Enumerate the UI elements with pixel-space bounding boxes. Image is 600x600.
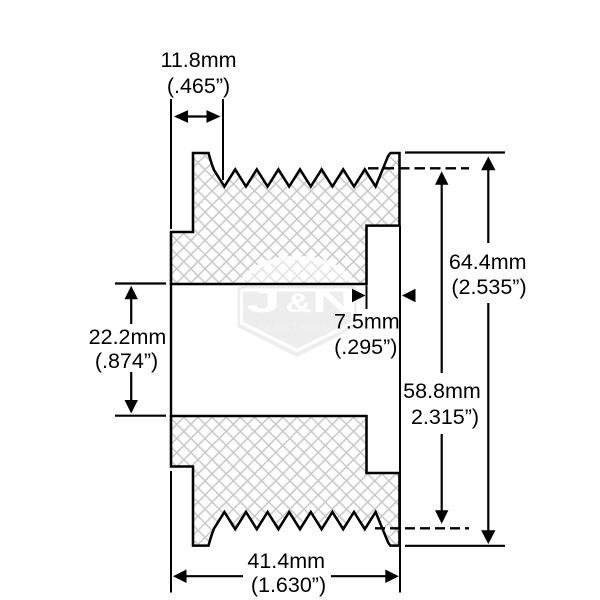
svg-text:64.4mm: 64.4mm [449,250,527,274]
22.2mm dimension line with arrows [125,286,138,414]
41.4mm dimension line [173,570,399,584]
tick line bottom (overall height) [405,545,505,547]
svg-text:41.4mm: 41.4mm [247,549,325,573]
svg-text:58.8mm: 58.8mm [403,379,481,403]
pulley lower flange outline [171,416,400,546]
dashed tick line bottom (groove root height) [375,527,469,529]
svg-text:(2.535”): (2.535”) [451,275,526,299]
pulley lower flange hatched section [171,416,400,546]
svg-text:2.315”): 2.315”) [411,405,479,429]
pulley upper flange hatched section [171,153,400,284]
64.4mm dimension line [481,157,495,545]
7.5mm arrow left [352,289,366,302]
svg-text:ELECTRICAL: ELECTRICAL [258,322,338,334]
tick line lower (hub width) [115,415,166,417]
tick line upper (hub width) [115,282,166,284]
svg-text:(.874”): (.874”) [95,349,158,373]
pulley upper flange outline [171,153,400,284]
7.5mm arrow right [402,289,416,302]
11.8mm dimension double arrow [174,110,221,123]
7.5mm stub extension [366,286,368,310]
svg-text:7.5mm: 7.5mm [334,310,400,334]
J&N watermark [238,258,357,357]
svg-text:(1.630”): (1.630”) [251,573,326,597]
svg-text:(.465”): (.465”) [167,74,230,98]
svg-text:&: & [285,288,311,318]
right edge extension line x=400 [399,226,401,593]
extension line right (boss width) [222,99,224,180]
svg-text:J: J [246,283,280,319]
dashed tick line top (groove root height) [368,167,469,169]
svg-text:(.295”): (.295”) [334,335,397,359]
barrel left edge [170,284,172,416]
svg-text:22.2mm: 22.2mm [89,325,167,349]
tick line top (overall height) [405,151,505,153]
extension line lower left (pulley width) [170,471,172,593]
svg-text:11.8mm: 11.8mm [160,48,236,72]
extension line left (boss width) [170,99,172,229]
58.8mm dimension line [435,171,448,524]
